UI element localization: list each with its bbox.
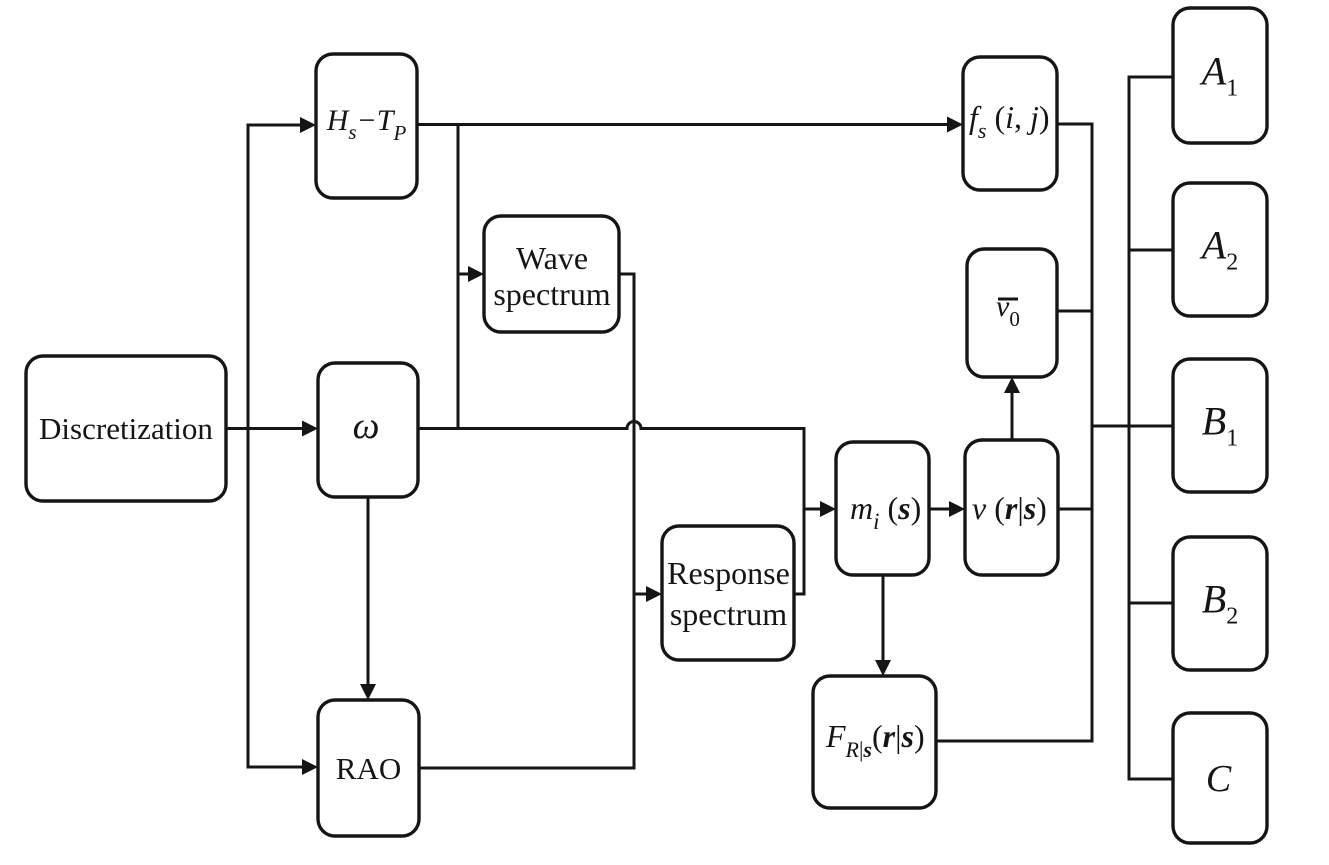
arrowhead into Response spectrum bbox=[646, 586, 662, 602]
box B1 bbox=[1173, 359, 1267, 492]
box A2 bbox=[1173, 183, 1267, 316]
wire RAO output bbox=[419, 767, 636, 770]
stub A2 bbox=[1129, 249, 1173, 252]
stub B2 bbox=[1129, 602, 1173, 605]
svg-text:spectrum: spectrum bbox=[670, 596, 787, 632]
wire arrow to Response spectrum bbox=[634, 593, 647, 596]
stub C bbox=[1129, 778, 1173, 781]
arrowhead into RAO from omega (down) bbox=[360, 684, 376, 700]
arrowhead into v0bar (up) bbox=[1004, 377, 1020, 393]
wire Hs-Tp to fs(i,j) bbox=[417, 123, 948, 126]
wire omega output with jumper bbox=[418, 422, 804, 429]
arrowhead into F (down) bbox=[875, 660, 891, 676]
wire branch to RAO bbox=[248, 766, 303, 769]
wire Response right hook bbox=[795, 593, 804, 596]
wire mi(s) to v(r|s) bbox=[929, 508, 950, 511]
box F R|s bbox=[813, 676, 936, 808]
stub A1 bbox=[1129, 76, 1173, 79]
svg-text:v (r|s): v (r|s) bbox=[972, 490, 1047, 526]
wire v(r|s) up to v0 bbox=[1011, 392, 1014, 440]
wire branch to Hs-Tp bbox=[248, 124, 301, 127]
box Response spectrum bbox=[662, 526, 794, 660]
box A1 bbox=[1173, 8, 1267, 143]
wire v(r|s) to collector bbox=[1058, 508, 1094, 511]
branch trunk vertical bbox=[247, 124, 250, 769]
box v(r|s) bbox=[965, 440, 1058, 575]
wire collector to B1 bbox=[1092, 425, 1173, 428]
box Hs-Tp bbox=[316, 54, 417, 198]
box v0bar bbox=[967, 249, 1057, 377]
arrowhead into omega bbox=[302, 421, 318, 437]
svg-text:Discretization: Discretization bbox=[39, 411, 213, 446]
box C bbox=[1173, 713, 1267, 843]
box B2 bbox=[1173, 537, 1267, 670]
box RAO bbox=[318, 700, 419, 836]
wire mi(s) down to F bbox=[882, 575, 885, 661]
svg-text:spectrum: spectrum bbox=[493, 276, 610, 312]
bracket vertical bbox=[1128, 76, 1131, 781]
box Discretization bbox=[26, 356, 226, 501]
arrowhead into v bbox=[949, 501, 965, 517]
arrowhead into Wave spectrum bbox=[468, 266, 484, 282]
arrowhead into Hs-Tp bbox=[300, 117, 316, 133]
box Wave spectrum bbox=[484, 216, 619, 332]
wire arrow to mi(s) bbox=[804, 508, 821, 511]
wire F output bbox=[936, 740, 1094, 743]
svg-text:ω: ω bbox=[353, 405, 380, 447]
vertical omega/Response to mi bbox=[803, 427, 806, 596]
arrowhead into fs bbox=[947, 117, 963, 133]
box omega bbox=[318, 363, 418, 497]
vertical bus Wave/RAO to Response bbox=[633, 273, 636, 770]
wire Discretization to omega bbox=[226, 427, 303, 430]
wire drop from Hs-Tp line bbox=[457, 124, 460, 431]
box fs(i,j) bbox=[963, 57, 1057, 190]
arrowhead into RAO bbox=[302, 759, 318, 775]
collector vertical bbox=[1091, 123, 1094, 743]
svg-text:Response: Response bbox=[667, 555, 790, 591]
svg-text:Wave: Wave bbox=[516, 240, 588, 276]
svg-text:C: C bbox=[1206, 758, 1232, 800]
box mi(s) bbox=[836, 442, 929, 575]
wire v0bar to collector bbox=[1057, 310, 1094, 313]
wire arrow to Wave spectrum bbox=[458, 273, 469, 276]
arrowhead into mi bbox=[820, 501, 836, 517]
wire Wave spectrum right stub bbox=[619, 273, 636, 276]
overbar of v0 bbox=[998, 298, 1018, 301]
wire omega down to RAO bbox=[367, 497, 370, 685]
svg-text:RAO: RAO bbox=[336, 751, 401, 786]
wire fs output bbox=[1057, 123, 1094, 126]
